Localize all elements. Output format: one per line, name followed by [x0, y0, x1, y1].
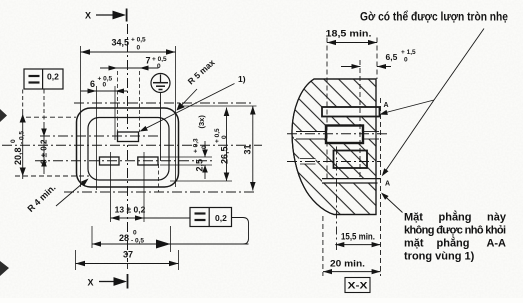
leader from 13 dim to tolerance frame	[144, 217, 190, 219]
svg-text:Mặt: Mặt	[404, 212, 423, 224]
dimension 28	[92, 240, 249, 249]
step face plate (white strip)	[322, 179, 381, 183]
svg-text:mặt: mặt	[404, 238, 424, 250]
leader branch to upper A	[382, 100, 434, 114]
leader R 5 max to outer corner	[178, 89, 197, 109]
dimension 2,5 (3x) slot height	[160, 141, 212, 179]
extension line x=115	[114, 86, 116, 140]
A-A plane dashed line	[380, 98, 382, 276]
extension lines for slot edges	[117, 71, 119, 132]
middle slot channel right (white band)	[363, 132, 379, 140]
svg-text:A-A: A-A	[486, 238, 506, 250]
lower contact rectangle (hidden outline over hatch)	[334, 151, 368, 169]
extension line 34,5 right	[175, 46, 177, 187]
outer rounded rectangle of connector face	[77, 108, 179, 187]
tolerance frame (parallelism 0,2) top-left	[24, 69, 63, 89]
re-stroke body outline	[292, 79, 376, 215]
vertical centerline lower contact	[336, 147, 338, 251]
horizontal centerline	[2, 144, 262, 146]
dashed extension for 20 min left	[322, 216, 324, 276]
extension line x=96.5	[96, 86, 98, 190]
svg-text:trong vùng 1): trong vùng 1)	[404, 251, 475, 263]
extension line 34,5 left	[80, 46, 82, 187]
extension verticals for 28	[91, 226, 93, 248]
leader R 4 min to inner corner	[56, 180, 87, 206]
svg-text:này: này	[487, 212, 507, 224]
leader from frame down to 28 dimension	[232, 218, 249, 245]
leader branch to lower A	[383, 100, 434, 175]
extension verticals through slots	[110, 152, 112, 222]
extension line for 26,5 bottom	[170, 180, 232, 182]
dimension 6	[81, 89, 128, 94]
dimension 6,5	[341, 64, 391, 69]
earth pin slot (top center)	[118, 132, 139, 142]
dimension 13 +-0,2	[111, 215, 145, 220]
dimension 26,5	[224, 108, 230, 182]
note leader from top text	[434, 29, 484, 101]
middle slot channel left (white band)	[294, 132, 326, 140]
centerline lower pin	[287, 161, 381, 163]
dashed feature lines for 20,8	[26, 116, 76, 118]
dimension 20,8 (left outer)	[20, 90, 26, 180]
horizontal dash-dot through earth slot	[40, 135, 160, 137]
upper slot strip (white)	[322, 107, 380, 117]
scan artifact left edge upper	[0, 109, 7, 122]
leader from note text to step face	[383, 194, 403, 213]
centerline middle pin	[287, 133, 388, 135]
dimension 8 +-0,2 (left inner)	[41, 90, 47, 175]
section plane centerline X-X (vertical dash-dot)	[127, 24, 129, 262]
earth leader line down to slot	[160, 93, 162, 162]
svg-text:phẳng: phẳng	[437, 237, 470, 250]
right pin slot	[138, 157, 158, 165]
horizontal dash-dot line above face	[74, 102, 254, 104]
horizontal dash-dot through pin slots	[35, 160, 215, 162]
dimension 15,5 min	[335, 242, 380, 247]
left pin slot	[100, 157, 120, 165]
contact block (thick rectangle)	[326, 126, 363, 144]
dimension 7 (earth slot width)	[100, 66, 159, 71]
inner rounded rectangle	[88, 118, 169, 181]
dimension 37	[76, 261, 179, 266]
dimension 20 min	[323, 269, 381, 274]
dimension 31	[250, 106, 256, 191]
vertical dashed through section (earth pin line)	[359, 60, 361, 178]
tolerance frame (parallelism 0,2) right	[190, 208, 232, 227]
leader 1) to earth slot	[142, 84, 235, 131]
section arrow X (top)	[96, 9, 127, 22]
section body (hatched)	[292, 79, 376, 215]
X-X label box	[345, 278, 370, 293]
section arrow X (bottom)	[99, 264, 128, 289]
horizontal dash-dot below face	[64, 191, 256, 193]
extension line top right	[180, 105, 257, 107]
svg-text:không được nhô khỏi: không được nhô khỏi	[404, 225, 506, 237]
svg-text:phẳng: phẳng	[439, 211, 472, 224]
lower slot channel (white band)	[299, 159, 316, 165]
note: Mặt phẳng này không được nhô khỏi mặt phẳng A-A trong vùng 1)	[404, 211, 507, 263]
dimension 18,5 min	[327, 40, 377, 45]
earth symbol U1	[151, 74, 170, 93]
dimension 34,5	[81, 49, 176, 54]
scan artifact left edge lower	[0, 261, 9, 276]
